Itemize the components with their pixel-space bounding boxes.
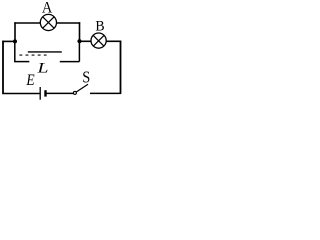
- wire L-branch right stub: [60, 61, 80, 63]
- switch S blade: [76, 84, 88, 92]
- switch S pivot circle: [73, 91, 76, 94]
- battery E short plate: [44, 90, 46, 96]
- wire top-left horizontal to lamp A: [14, 22, 40, 24]
- battery E long plate: [39, 87, 41, 100]
- wire L-branch left stub: [15, 61, 29, 63]
- wire right vertical down to node B branch: [79, 22, 81, 41]
- svg-text:L: L: [36, 59, 48, 76]
- wire left outer edge: [2, 41, 4, 94]
- wire bottom-right: [90, 92, 121, 94]
- wire middle-left horizontal: [2, 40, 15, 42]
- component L core line: [28, 51, 62, 53]
- wire right outer edge: [120, 41, 122, 94]
- svg-text:B: B: [95, 18, 104, 34]
- wire node to lamp B: [80, 40, 92, 42]
- wire L-branch right vertical up to node: [78, 41, 80, 61]
- svg-text:S: S: [82, 68, 90, 86]
- wire L-branch left vertical from node down: [14, 41, 16, 62]
- svg-text:E: E: [25, 72, 34, 89]
- node junction dot left: [13, 39, 17, 43]
- svg-text:A: A: [42, 0, 52, 17]
- wire lamp A right to top-right corner: [56, 22, 80, 24]
- wire bottom-middle to switch: [46, 92, 74, 94]
- wire left vertical from top corner down to node: [14, 22, 16, 41]
- background: [0, 0, 123, 100]
- lamp B: [91, 33, 106, 48]
- wire lamp B right: [106, 40, 121, 42]
- wire bottom-left to battery: [2, 93, 40, 95]
- component L dashed row: [19, 54, 46, 56]
- lamp A: [40, 14, 56, 30]
- node junction dot right: [77, 39, 81, 43]
